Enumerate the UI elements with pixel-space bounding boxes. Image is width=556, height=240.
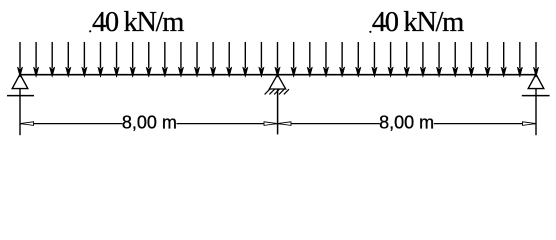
load arrow 15	[243, 42, 248, 77]
load arrow 33	[533, 42, 538, 77]
support B triangle (middle)	[269, 75, 285, 89]
load arrow 7	[114, 42, 119, 77]
svg-text:8,00 m: 8,00 m	[122, 113, 177, 133]
load arrow 11	[178, 42, 183, 77]
dim arrow mid-right	[278, 122, 292, 126]
load arrow 5	[82, 42, 87, 77]
load arrow 4	[66, 42, 71, 77]
load arrow 6	[98, 42, 103, 77]
load arrow 21	[339, 42, 344, 77]
extension line left	[19, 89, 21, 136]
dim arrow right end	[523, 122, 537, 126]
load arrow 12	[194, 42, 199, 77]
load arrow 31	[501, 42, 506, 77]
load arrow 3	[49, 42, 54, 77]
dim text bg right	[380, 114, 434, 130]
load arrow 26	[420, 42, 425, 77]
load arrow 16	[259, 42, 264, 77]
load arrow 8	[130, 42, 135, 77]
stray dot left	[89, 30, 91, 32]
stray dot right	[369, 31, 371, 33]
support C triangle (right)	[528, 74, 544, 88]
dim text bg left	[123, 114, 177, 130]
load arrow 25	[404, 42, 409, 77]
dim arrow left end	[20, 122, 34, 126]
load arrow 19	[307, 42, 312, 77]
svg-text:8,00 m: 8,00 m	[379, 113, 434, 133]
load arrow 10	[162, 42, 167, 77]
dimension line span 2	[278, 123, 537, 125]
support A triangle (left)	[12, 74, 28, 88]
load arrow 20	[323, 42, 328, 77]
support A ground line	[7, 95, 34, 97]
load arrow 30	[485, 42, 490, 77]
extension line right	[535, 89, 537, 136]
load arrow 32	[517, 42, 522, 77]
load arrow 22	[356, 42, 361, 77]
load arrow 14	[227, 42, 232, 77]
support B hatching	[265, 89, 289, 94]
load arrow 1	[17, 42, 22, 77]
support C ground line	[522, 95, 550, 97]
load arrow 13	[210, 42, 215, 77]
load arrow 18	[291, 42, 296, 77]
load arrow 2	[33, 42, 38, 77]
load arrow 23	[372, 42, 377, 77]
extension line middle	[277, 89, 279, 134]
load arrow 17	[275, 42, 280, 77]
load arrow 27	[436, 42, 441, 77]
svg-text:40 kN/m: 40 kN/m	[372, 7, 464, 38]
svg-text:40 kN/m: 40 kN/m	[92, 7, 184, 38]
beam	[20, 74, 536, 76]
load arrow 29	[469, 42, 474, 77]
dim arrow mid-left	[264, 122, 278, 126]
load arrow 28	[453, 42, 458, 77]
dimension line span 1	[20, 123, 278, 125]
load arrow 9	[146, 42, 151, 77]
load arrow 24	[388, 42, 393, 77]
